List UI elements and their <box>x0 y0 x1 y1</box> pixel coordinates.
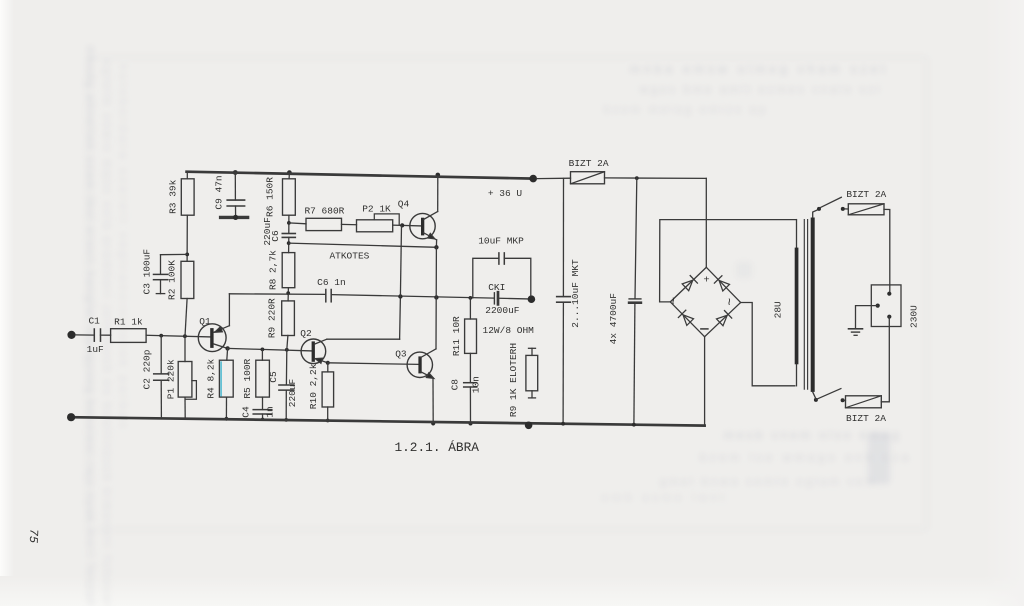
fuse BIZT 2A upper <box>846 189 886 215</box>
wire <box>435 240 437 247</box>
svg-text:+: + <box>703 275 709 287</box>
node Q <box>398 294 402 298</box>
wire <box>186 172 188 179</box>
capacitor C5 <box>268 350 298 420</box>
wire <box>327 363 329 372</box>
wire <box>704 337 706 426</box>
node V <box>434 245 438 249</box>
node G <box>261 348 265 352</box>
node W <box>431 421 435 425</box>
node F <box>225 417 229 421</box>
resistor R5 <box>242 358 270 398</box>
capacitor C3 <box>142 249 168 295</box>
resistor R1 <box>111 316 147 342</box>
fuse BIZT 2A lower <box>846 396 887 424</box>
wire <box>813 209 819 217</box>
switch S2 <box>814 389 846 403</box>
svg-text:C4: C4 <box>241 406 252 418</box>
svg-text:C5: C5 <box>268 371 279 383</box>
label speaker <box>483 325 535 336</box>
capacitor C2 <box>141 336 168 418</box>
ground <box>849 329 863 336</box>
svg-text:1n: 1n <box>265 406 276 417</box>
wire ATKOTES <box>289 243 437 261</box>
resistor R4 <box>205 358 233 398</box>
svg-text:230U: 230U <box>909 305 920 328</box>
wire <box>469 298 471 319</box>
svg-text:R10 2,2k: R10 2,2k <box>308 363 319 409</box>
node input terminal <box>67 331 75 339</box>
svg-text:C3 100uF: C3 100uF <box>142 249 153 295</box>
label figure caption <box>394 440 479 455</box>
wire <box>332 295 494 299</box>
node E <box>225 346 229 350</box>
svg-text:P2 1K: P2 1K <box>362 203 391 214</box>
capacitor C8 <box>450 376 482 423</box>
wire <box>537 177 571 179</box>
wire <box>185 299 187 337</box>
capacitor 4x 4700uF <box>608 178 641 425</box>
wire <box>342 223 357 225</box>
svg-text:10uF MKP: 10uF MKP <box>478 236 524 247</box>
wire <box>705 178 707 267</box>
svg-text:220uF: 220uF <box>287 378 298 407</box>
svg-text:CKI: CKI <box>488 282 505 293</box>
wire <box>437 175 439 212</box>
svg-text:12W/8 OHM: 12W/8 OHM <box>483 325 535 336</box>
svg-text:2...10uF MKT: 2...10uF MKT <box>570 259 581 328</box>
node AA <box>632 423 636 427</box>
node K <box>326 361 330 365</box>
wire <box>287 336 288 350</box>
wire <box>884 209 890 293</box>
wire <box>289 222 306 225</box>
node L <box>326 419 330 423</box>
capacitor C1 <box>87 315 104 355</box>
svg-text:R7 680R: R7 680R <box>304 205 344 216</box>
svg-text:P1 220k: P1 220k <box>166 359 177 399</box>
node B <box>183 334 187 338</box>
svg-text:C1: C1 <box>88 315 100 326</box>
bridge rectifier frame <box>666 267 740 336</box>
svg-text:+ 36 U: + 36 U <box>488 188 523 199</box>
transformer TR1 primary <box>811 218 815 392</box>
svg-text:R11 10R: R11 10R <box>451 316 462 356</box>
resistor R2 <box>166 260 194 300</box>
node M <box>287 170 292 175</box>
svg-text:Q4: Q4 <box>398 198 410 209</box>
svg-text:~: ~ <box>666 297 681 305</box>
capacitor C9 <box>213 173 247 220</box>
wire <box>435 247 437 349</box>
svg-text:R3 39k: R3 39k <box>168 179 179 214</box>
svg-text:R6 150R: R6 150R <box>265 177 276 217</box>
svg-text:BIZT 2A: BIZT 2A <box>569 158 609 169</box>
diode D2 <box>714 276 729 291</box>
svg-text:R5 100R: R5 100R <box>242 358 253 398</box>
wire <box>186 215 188 261</box>
resistor R9 1K ELOTERH <box>508 343 538 417</box>
switch S1 <box>817 197 845 211</box>
wire <box>226 348 229 360</box>
node H <box>261 418 264 421</box>
node D <box>233 170 238 175</box>
svg-text:C2 220p: C2 220p <box>141 349 152 389</box>
wire <box>399 297 402 340</box>
svg-text:4x 4700uF: 4x 4700uF <box>608 293 619 345</box>
wire <box>261 349 263 360</box>
wire <box>499 297 527 300</box>
resistor R10 <box>308 363 333 409</box>
wire <box>856 306 878 329</box>
node J <box>284 418 288 422</box>
wire <box>327 338 400 340</box>
svg-text:R4 8,2k: R4 8,2k <box>205 358 216 398</box>
svg-text:R1 1k: R1 1k <box>114 316 143 327</box>
capacitor C4 <box>241 406 276 419</box>
node O <box>287 241 291 245</box>
svg-text:BIZT 2A: BIZT 2A <box>846 413 886 424</box>
node U <box>436 173 441 178</box>
resistor R9 220R <box>267 298 295 338</box>
svg-text:Q2: Q2 <box>300 328 312 339</box>
svg-text:~: ~ <box>723 298 738 306</box>
svg-text:2200uF: 2200uF <box>485 305 520 316</box>
diode D4 <box>717 311 732 326</box>
svg-text:10n: 10n <box>471 376 482 393</box>
transistor Q2 <box>300 328 328 364</box>
transistor Q3 <box>395 348 436 378</box>
resistor R3 <box>168 179 195 215</box>
node Y <box>635 176 639 180</box>
transformer TR1 secondary <box>773 220 799 386</box>
wire <box>845 208 849 210</box>
capacitor C6 1n <box>317 277 346 302</box>
svg-text:Q3: Q3 <box>395 348 407 359</box>
capacitor 10uF MKP <box>473 236 531 298</box>
wire <box>741 303 795 386</box>
svg-text:R9 220R: R9 220R <box>267 298 278 338</box>
capacitor CKI <box>485 282 520 316</box>
node P <box>286 291 290 295</box>
node A <box>159 334 163 338</box>
wire <box>660 220 797 302</box>
node output <box>528 295 536 303</box>
page number <box>26 528 41 543</box>
node I <box>285 348 289 352</box>
capacitor C6 220uF <box>262 217 295 246</box>
wire <box>101 334 111 336</box>
svg-text:C6 1n: C6 1n <box>317 277 346 288</box>
fuse BIZT 2A <box>569 158 609 184</box>
transistor Q1 <box>198 316 229 352</box>
svg-text:C8: C8 <box>450 379 461 391</box>
svg-text:28U: 28U <box>773 301 784 318</box>
node AB <box>525 422 533 430</box>
wire <box>813 392 816 399</box>
plug 230V <box>871 285 919 328</box>
potentiometer P2 <box>357 203 400 232</box>
svg-text:1uF: 1uF <box>87 344 104 355</box>
wire <box>432 378 434 424</box>
resistor R11 <box>451 316 477 356</box>
svg-text:Q1: Q1 <box>199 316 211 327</box>
svg-text:R8 2,7k: R8 2,7k <box>268 250 279 290</box>
node R <box>434 295 438 299</box>
wire <box>287 288 289 301</box>
resistor R6 <box>265 177 296 217</box>
node T <box>400 223 404 227</box>
svg-text:BIZT 2A: BIZT 2A <box>846 189 886 200</box>
wire <box>328 363 419 365</box>
transformer core <box>804 220 807 390</box>
wire <box>228 294 230 326</box>
wire <box>400 225 401 296</box>
svg-text:C9 47n: C9 47n <box>213 175 224 209</box>
wire <box>262 397 264 409</box>
potentiometer P1 <box>166 336 197 418</box>
svg-text:75: 75 <box>26 528 41 543</box>
node C <box>185 253 189 257</box>
node Z <box>561 422 565 426</box>
wire <box>393 224 421 227</box>
wire <box>225 397 227 419</box>
resistor R7 <box>304 205 344 230</box>
wire ground rail <box>71 417 705 425</box>
svg-text:1.2.1. ÁBRA: 1.2.1. ÁBRA <box>394 440 479 455</box>
wire <box>288 215 290 233</box>
node S <box>469 296 473 300</box>
wire <box>469 353 471 382</box>
wire <box>881 317 889 402</box>
svg-text:ATKOTES: ATKOTES <box>329 250 369 261</box>
wire <box>288 237 290 252</box>
wire <box>75 334 94 336</box>
svg-text:R9 1K ELOTERH: R9 1K ELOTERH <box>508 343 519 417</box>
diode D1 <box>682 276 697 291</box>
wire <box>327 407 329 421</box>
wire <box>288 173 290 179</box>
wire <box>229 293 325 296</box>
resistor R8 <box>268 250 295 290</box>
wire <box>161 253 188 255</box>
node rail end <box>529 175 537 183</box>
node X <box>469 422 473 426</box>
wire <box>146 335 210 337</box>
wire +36V rail <box>187 172 534 199</box>
transistor Q4 <box>398 198 438 240</box>
node N <box>287 221 291 225</box>
svg-text:C6: C6 <box>270 230 281 242</box>
capacitor 2...10uF MKT <box>557 178 581 423</box>
node ground terminal <box>67 413 75 421</box>
wire <box>605 177 707 180</box>
wire <box>228 348 312 351</box>
diode D3 <box>678 310 693 325</box>
